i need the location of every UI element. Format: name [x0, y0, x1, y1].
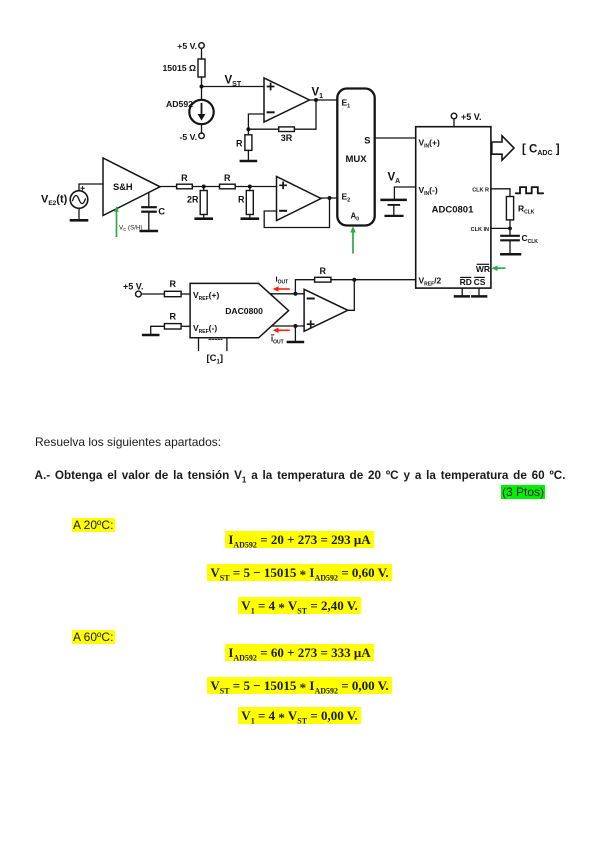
svg-text:IOUT: IOUT: [271, 335, 284, 346]
wire: [247, 129, 249, 135]
label R (VREF+): [169, 279, 176, 289]
wire: [78, 208, 80, 219]
label ADC0801: [432, 205, 474, 216]
pin label CLK IN: [471, 227, 489, 233]
resistor 2R: [200, 191, 207, 215]
label R (U1 leg): [236, 139, 243, 149]
+5V terminal (sensor branch): [199, 43, 205, 49]
label R (ladder 1): [181, 173, 188, 183]
wire S output: [375, 137, 416, 139]
label AD592: [166, 99, 193, 109]
wire CLKR to RCLK: [491, 189, 510, 197]
svg-text:CLK R: CLK R: [472, 187, 489, 193]
label +5 V. (ADC): [461, 112, 481, 122]
arrow IOUT (red): [273, 286, 290, 291]
wire S&H output: [160, 186, 177, 188]
svg-text:VE2(t): VE2(t): [41, 194, 68, 208]
wire U2 feedback loop: [264, 198, 329, 228]
svg-text:3R: 3R: [281, 133, 293, 143]
label VST: [225, 75, 242, 89]
digital input pins: [199, 338, 227, 351]
resistor RCLK: [506, 197, 513, 220]
ground (VA): [386, 215, 403, 217]
wire: [249, 215, 251, 218]
svg-text:[C1]: [C1]: [207, 353, 224, 366]
label VE2(t): [41, 194, 68, 208]
ground (VREF-): [143, 334, 158, 337]
label IOUT: [276, 275, 289, 286]
wire: [181, 293, 190, 295]
label CCLK: [522, 233, 539, 245]
ground (RD): [455, 288, 469, 296]
svg-text:+5 V.: +5 V.: [177, 41, 197, 51]
label S: [364, 136, 370, 147]
battery VA: [382, 200, 406, 215]
wire: [294, 326, 296, 341]
label R (ladder shunt): [238, 195, 245, 205]
label -5 V.: [179, 132, 197, 142]
svg-text:VIN(-): VIN(-): [419, 185, 438, 197]
label VC (S/H): [119, 225, 142, 232]
svg-text:V1: V1: [312, 87, 324, 101]
label [ CADC ]: [522, 144, 560, 158]
svg-text:CCLK: CCLK: [522, 233, 539, 245]
wire: [249, 187, 251, 191]
svg-text:RD: RD: [460, 277, 472, 287]
wire: [192, 186, 219, 188]
svg-text:E1: E1: [342, 98, 351, 110]
label VREF(+): [193, 290, 219, 302]
label A0: [351, 212, 360, 223]
node CLKIN: [508, 227, 512, 231]
resistor R (VREF-): [164, 324, 181, 329]
wire IOUT: [270, 293, 304, 295]
resistor R (ladder 2): [220, 184, 236, 189]
label +5 V.: [177, 41, 197, 51]
ground (C): [141, 230, 157, 233]
wire feedback down: [295, 100, 317, 129]
resistor R (U1 ground leg): [245, 135, 252, 151]
wire: [201, 77, 203, 99]
label MUX: [345, 154, 367, 165]
wire U1 output: [310, 99, 338, 101]
DAC0800 block: [190, 283, 289, 337]
wire to ground: [151, 326, 165, 334]
label 3R: [281, 133, 293, 143]
+5V terminal (ADC): [451, 113, 457, 119]
label 15015 ohm: [162, 63, 196, 73]
node V1: [314, 98, 318, 102]
wire: [248, 128, 278, 130]
source VE2: [70, 187, 88, 209]
svg-text:MUX: MUX: [345, 154, 367, 165]
wire feedback up: [295, 280, 314, 294]
ground (2R): [196, 217, 212, 220]
label RCLK: [518, 204, 535, 216]
body text: [35, 435, 221, 449]
label VREF(-): [193, 323, 217, 335]
ground (CCLK): [501, 253, 520, 256]
label [C1]: [207, 353, 224, 366]
svg-text:-5 V.: -5 V.: [179, 132, 197, 142]
svg-text:VST: VST: [225, 75, 242, 89]
node U1 inverting net: [246, 127, 250, 131]
label V1: [312, 87, 324, 101]
arrow A0 (green): [350, 226, 356, 253]
label VREF/2: [419, 276, 442, 288]
arrow WR (green): [491, 265, 505, 271]
wire: [202, 86, 265, 88]
ground (CS): [472, 288, 486, 296]
op-amp U3: [304, 289, 348, 331]
ground (U1 leg): [241, 160, 256, 163]
wire IOUTB: [272, 325, 304, 327]
pin label RD (overline): [460, 277, 472, 287]
capacitor CCLK: [501, 236, 519, 241]
svg-text:R: R: [181, 173, 188, 183]
svg-text:CLK IN: CLK IN: [471, 227, 489, 233]
-5V terminal: [199, 133, 205, 139]
resistor 15015 ohm: [198, 59, 205, 77]
MUX block: [337, 89, 374, 226]
svg-text:R: R: [238, 195, 245, 205]
wire: [509, 220, 511, 235]
label +5 V. (DAC): [123, 282, 143, 292]
node U2 output: [328, 196, 332, 200]
arrow IOUTB (red): [273, 328, 290, 333]
svg-text:S: S: [364, 136, 370, 147]
wire: [235, 186, 276, 188]
svg-text:R: R: [169, 279, 176, 289]
svg-text:DAC0800: DAC0800: [225, 306, 263, 316]
S&H block: [103, 158, 160, 216]
svg-text:VREF/2: VREF/2: [419, 276, 442, 288]
ground (U3 +): [288, 341, 303, 344]
svg-text:15015 Ω: 15015 Ω: [162, 63, 196, 73]
svg-text:VREF(+): VREF(+): [193, 290, 219, 302]
svg-text:WR: WR: [476, 264, 490, 274]
svg-text:ADC0801: ADC0801: [432, 205, 474, 216]
svg-text:2R: 2R: [187, 195, 199, 205]
label R (ladder 2): [224, 173, 231, 183]
ground (VE2): [71, 219, 87, 222]
svg-text:RCLK: RCLK: [518, 204, 535, 216]
label IOUTB (overline): [271, 335, 284, 346]
label VIN(+): [419, 138, 440, 150]
label E1: [342, 98, 351, 110]
svg-text:R: R: [319, 266, 326, 276]
wire: [453, 119, 455, 127]
svg-text:IOUT: IOUT: [276, 275, 289, 286]
wire to hold capacitor: [148, 193, 150, 207]
node U3 output: [352, 278, 356, 282]
arrow VC (green): [114, 206, 119, 237]
svg-text:VC (S/H): VC (S/H): [119, 225, 142, 232]
resistor R (VREF+): [164, 291, 181, 296]
svg-text:VA: VA: [388, 172, 401, 186]
wire: [201, 48, 203, 59]
svg-text:[ CADC ]: [ CADC ]: [522, 144, 560, 158]
label 2R: [187, 195, 199, 205]
svg-text:S&H: S&H: [113, 182, 133, 192]
label R (VREF-): [169, 312, 176, 322]
wire: [247, 150, 249, 160]
node VST junction: [200, 85, 204, 89]
label R (U3 feedback): [319, 266, 326, 276]
svg-text:C: C: [158, 207, 165, 218]
wire: [201, 124, 203, 133]
svg-text:CS: CS: [474, 277, 486, 287]
wire: [509, 241, 511, 253]
wire U2 output to E2: [321, 197, 337, 199]
resistor R (ladder shunt): [246, 191, 253, 215]
label E2: [342, 192, 351, 204]
pin label WR (overline): [476, 264, 490, 274]
wire CLKIN pin: [491, 227, 510, 229]
capacitor C: [142, 207, 155, 212]
label VA: [388, 172, 401, 186]
node IOUTB: [293, 324, 297, 328]
svg-text:R: R: [169, 312, 176, 322]
label C: [158, 207, 165, 218]
svg-text:+5 V.: +5 V.: [123, 282, 143, 292]
wire to inverting input: [248, 114, 264, 129]
ADC0801 block: [416, 127, 491, 288]
svg-text:E2: E2: [342, 192, 351, 204]
wire: [203, 187, 205, 191]
label DAC0800: [225, 306, 263, 316]
pin label CS (overline): [474, 277, 486, 287]
resistor R (U3 feedback): [315, 277, 331, 282]
op-amp U1: [264, 78, 310, 122]
node IOUT: [293, 292, 297, 296]
svg-text:VIN(+): VIN(+): [419, 138, 440, 150]
current source AD592: [189, 100, 213, 124]
wire: [181, 325, 190, 327]
svg-text:AD592: AD592: [166, 99, 193, 109]
svg-text:R: R: [224, 173, 231, 183]
wire: [203, 215, 205, 218]
pin label CLK R: [472, 187, 489, 193]
+5V terminal (DAC): [136, 291, 142, 297]
op-amp U2: [277, 177, 322, 221]
resistor 3R: [279, 127, 295, 132]
label S&H: [113, 182, 133, 192]
node ladder B: [248, 185, 252, 189]
svg-text:R: R: [236, 139, 243, 149]
node ladder A: [202, 185, 206, 189]
output bus arrow CADC: [492, 136, 514, 160]
svg-text:VREF(-): VREF(-): [193, 323, 217, 335]
wire U3 output: [348, 280, 355, 311]
wire: [148, 213, 150, 230]
ground (ladder shunt): [242, 217, 258, 220]
clock waveform: [516, 187, 543, 193]
resistor R (ladder 1): [177, 184, 193, 189]
svg-text:+5 V.: +5 V.: [461, 112, 481, 122]
label VIN(-): [419, 185, 438, 197]
wire: [141, 293, 164, 295]
wire source to S&H: [79, 184, 103, 191]
wire to VREF/2: [331, 279, 416, 281]
wire VIN- to VA: [394, 187, 415, 199]
svg-text:A0: A0: [351, 212, 360, 223]
